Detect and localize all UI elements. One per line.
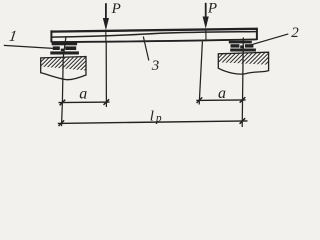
load arrow P right	[203, 3, 209, 41]
right load extension line	[199, 42, 202, 105]
dimension l_p	[58, 118, 248, 126]
right support centre line	[242, 38, 243, 128]
svg-text:p: p	[155, 112, 162, 124]
label l_p	[150, 108, 162, 124]
beam 3 outline	[51, 28, 257, 43]
leader line to label 2	[246, 34, 288, 46]
load arrow P left	[103, 3, 109, 41]
leader line to label 1	[4, 45, 53, 48]
left load extension line	[105, 41, 107, 107]
right support bottom plate	[230, 49, 256, 52]
right support pedestal block	[201, 50, 284, 74]
left support pedestal block	[22, 54, 105, 80]
left support top bearing plate	[52, 42, 78, 45]
right support rocker plates	[231, 44, 254, 48]
right support top bearing plate	[229, 41, 252, 44]
dimension a right	[196, 97, 245, 103]
svg-text:1: 1	[8, 28, 18, 45]
left support centre line	[62, 36, 67, 126]
svg-text:l: l	[150, 108, 154, 124]
svg-text:a: a	[218, 85, 226, 102]
dimension a left	[59, 99, 110, 105]
svg-text:P: P	[207, 1, 217, 17]
leader line to label 3	[143, 37, 149, 61]
svg-text:a: a	[79, 86, 87, 103]
left support bottom plate	[50, 51, 79, 54]
svg-text:P: P	[111, 1, 121, 17]
svg-text:3: 3	[151, 58, 160, 74]
left support rocker plates	[53, 46, 76, 51]
svg-text:2: 2	[291, 25, 299, 41]
